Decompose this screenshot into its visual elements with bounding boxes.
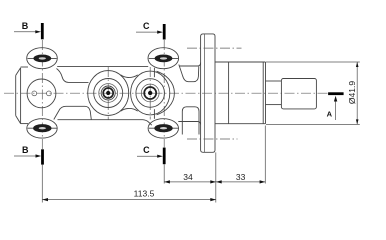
- peanut top waist fillet: [121, 75, 138, 78]
- flange bottom bolt centerline: [187, 138, 238, 140]
- barrel top edge: [215, 61, 266, 63]
- left end bore circle: [27, 79, 56, 108]
- neck top edge: [180, 63, 201, 67]
- extension line flange face: [215, 152, 217, 202]
- section A arrow: [335, 99, 337, 120]
- port2 boss circle: [136, 79, 165, 108]
- left end top chamfer: [16, 68, 21, 76]
- arrows at division: [210, 180, 221, 183]
- extension line below C: [163, 164, 165, 183]
- body left face: [20, 68, 22, 124]
- left small hole 2: [47, 91, 52, 96]
- section C bottom bar: [163, 148, 166, 165]
- svg-text:Ø41.9: Ø41.9: [347, 81, 357, 104]
- peanut circle port2: [131, 71, 170, 115]
- port1 center hole: [106, 91, 110, 95]
- svg-text:34: 34: [183, 172, 193, 182]
- boss B top lens: [33, 55, 51, 63]
- section B bottom arrow: [14, 155, 38, 157]
- svg-text:B: B: [22, 21, 29, 31]
- body top edge left: [21, 66, 28, 68]
- peanut bottom waist fillet: [121, 108, 138, 111]
- arrow 33 right: [260, 180, 266, 183]
- barrel joint line: [228, 62, 230, 124]
- body left end face: [15, 75, 17, 115]
- extension line barrel end: [264, 126, 266, 184]
- boss C bottom slot line: [149, 127, 178, 129]
- dia dim arrow bottom: [356, 119, 359, 124]
- port2 center hole: [148, 91, 152, 95]
- boss B bottom slot line: [28, 127, 58, 129]
- port2 thread ring: [144, 87, 156, 99]
- main horizontal centerline: [4, 92, 328, 94]
- svg-text:33: 33: [236, 172, 246, 182]
- section C top bar: [163, 24, 166, 40]
- neck2 top line: [266, 80, 282, 82]
- flange top bolt centerline: [187, 47, 242, 49]
- neck2 bottom line: [266, 104, 282, 106]
- dip bottom-left: [54, 106, 92, 119]
- vertical centerline B: [41, 40, 43, 149]
- top rib: [57, 65, 148, 67]
- boss C top slot line: [149, 57, 178, 59]
- vertical centerline C: [163, 40, 165, 148]
- bottom rib: [58, 120, 152, 126]
- boss C stem outline around port2 right: [157, 71, 175, 115]
- boss B top slot line: [28, 57, 57, 59]
- section C top arrow: [136, 31, 160, 33]
- dip bottom-right U: [182, 107, 199, 135]
- boss C top ellipse: [148, 48, 179, 69]
- section B bottom bar: [41, 149, 44, 164]
- svg-text:A: A: [327, 110, 333, 119]
- dia dimension line: [356, 62, 358, 124]
- dia dimension bottom extension line: [266, 123, 360, 125]
- left end bottom chamfer: [16, 116, 21, 124]
- boss C bottom lens: [154, 124, 172, 132]
- port1 vertical centerline: [107, 67, 109, 120]
- boss B bottom ellipse: [27, 119, 57, 138]
- arrow 113.5 left: [42, 198, 48, 201]
- port2 vertical centerline: [149, 67, 151, 120]
- svg-text:C: C: [143, 21, 150, 31]
- arrow 113.5 right: [210, 198, 216, 201]
- boss B top ellipse: [27, 48, 58, 69]
- barrel end face: [265, 62, 267, 124]
- port1 ring2: [101, 86, 115, 100]
- dimension line 113.5: [42, 199, 216, 201]
- dia dimension top extension line: [266, 61, 360, 63]
- boss C top lens: [155, 55, 173, 63]
- barrel end groove line: [262, 62, 264, 124]
- neck bottom edge: [178, 122, 200, 125]
- body bottom edge left: [21, 123, 28, 125]
- svg-text:B: B: [22, 145, 29, 155]
- port1 ring: [99, 84, 118, 103]
- flange outline: [201, 34, 215, 152]
- barrel bottom edge: [215, 123, 266, 125]
- boss C bottom ellipse: [148, 119, 178, 138]
- port1 boss circle: [94, 79, 123, 108]
- flange inner face line: [204, 34, 206, 152]
- peanut circle port1: [88, 71, 129, 116]
- extension line below B: [41, 165, 43, 203]
- dimension line 34-33: [164, 181, 265, 183]
- port1 thread ring: [103, 88, 113, 98]
- dip top-right U: [179, 65, 199, 82]
- end cap rectangle: [281, 79, 316, 109]
- dia dim arrow top: [356, 62, 359, 67]
- arrow 34 left: [164, 180, 170, 183]
- boss C bottom stem left: [153, 109, 155, 119]
- port2 ring: [141, 84, 159, 102]
- svg-text:C: C: [143, 145, 150, 155]
- dip top-left: [57, 69, 89, 83]
- boss B bottom lens: [33, 124, 51, 132]
- section A bar: [328, 92, 344, 95]
- boss C top stem left: [153, 68, 155, 77]
- section B top bar: [41, 23, 44, 39]
- section B top arrow: [14, 31, 38, 33]
- left small hole 1: [32, 91, 37, 96]
- section C bottom arrow: [137, 155, 160, 157]
- svg-text:113.5: 113.5: [134, 188, 155, 198]
